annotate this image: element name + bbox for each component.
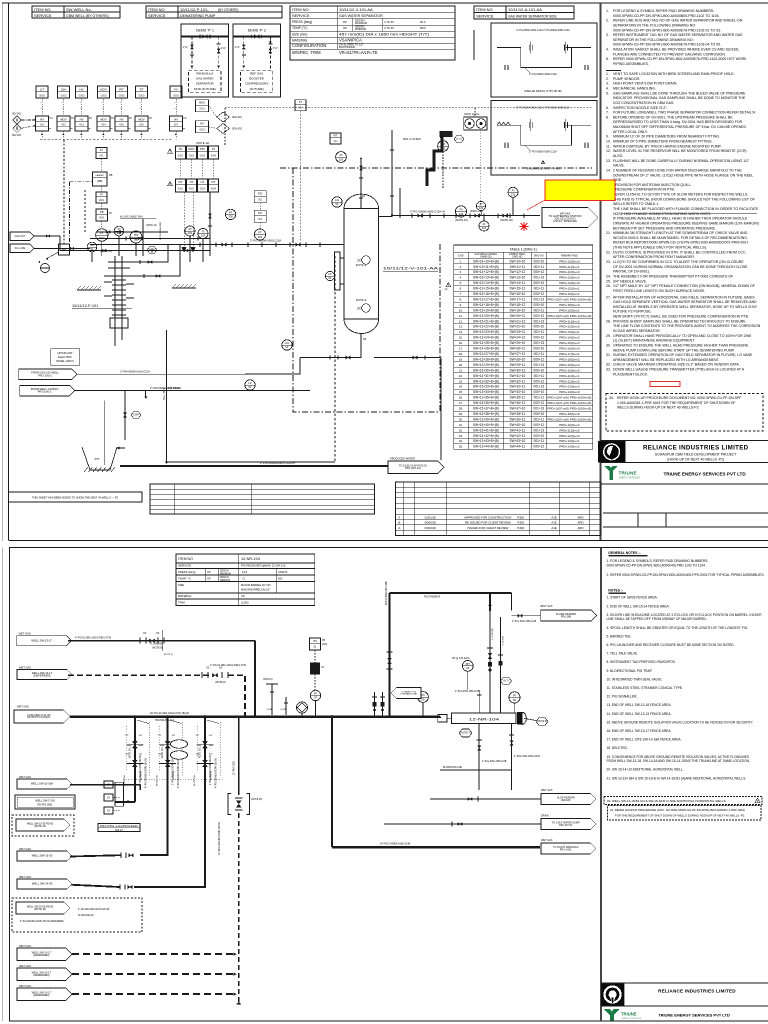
svg-text:0001: 0001	[178, 154, 184, 157]
svg-text:4.: 4.	[606, 87, 609, 91]
svg-text:TELL TALE: TELL TALE	[163, 387, 166, 400]
svg-text:BEFORE OPENING OF DV-0001, THE: BEFORE OPENING OF DV-0001, THE UPSTREAM …	[613, 115, 733, 119]
table: dewatering pump item block T2	[146, 6, 282, 18]
wellhead side stubs	[104, 281, 112, 283]
svg-text:APPROVED FOR CONSTRUCTION: APPROVED FOR CONSTRUCTION	[464, 515, 511, 519]
svg-text:SERVICE: SERVICE	[148, 13, 166, 18]
svg-text:SW+13+43+B+(B): SW+13+43+B+(B)	[473, 439, 499, 443]
svg-text:SERVICE: SERVICE	[476, 14, 494, 19]
svg-text:001+11: 001+11	[534, 308, 545, 312]
svg-text:TRIUNE: TRIUNE	[619, 471, 637, 476]
svg-text:LSH: LSH	[61, 87, 67, 91]
svg-text:000+12: 000+12	[533, 379, 544, 383]
svg-text:GAS WATER SEPARATOR: GAS WATER SEPARATOR	[339, 14, 383, 18]
vessel top nozzle	[360, 194, 362, 209]
instrument circle PI-230	[225, 209, 235, 219]
cluster double block valve	[204, 752, 206, 759]
cluster upper ticks	[134, 721, 136, 727]
svg-text:TRIUNE ENERGY SERVICES PVT LTD: TRIUNE ENERGY SERVICES PVT LTD	[663, 471, 746, 476]
flowline 1 riser to header	[254, 641, 256, 717]
svg-text:PRD+15(0)+x3: PRD+15(0)+x3	[559, 341, 580, 345]
svg-text:PIG RECEIVER (@MAX 12 DIA 9.5): PIG RECEIVER (@MAX 12 DIA 9.5)	[241, 564, 286, 568]
flexible hose zigzag	[497, 122, 510, 125]
svg-text:7. TELL TALE VALVE.: 7. TELL TALE VALVE.	[607, 652, 639, 656]
svg-text:C-07A: C-07A	[280, 708, 286, 711]
svg-text:VR=51/TR=A/LR=TE: VR=51/TR=A/LR=TE	[339, 50, 378, 55]
svg-text:000+10: 000+10	[533, 368, 544, 372]
svg-text:NOTE 10 L: NOTE 10 L	[162, 746, 164, 758]
svg-text:PRD+1(0)7+x(0) PRD+1(0)9+x(0): PRD+1(0)7+x(0) PRD+1(0)9+x(0)	[547, 297, 591, 301]
svg-text:XS: XS	[219, 667, 223, 670]
svg-text:06/06/20: 06/06/20	[425, 521, 437, 525]
svg-text:12-NR-104: 12-NR-104	[241, 557, 261, 561]
svg-text:4"-PG-0RA-B16-0CPN-1B-1W: 4"-PG-0RA-B16-0CPN-1B-1W	[78, 908, 110, 911]
svg-text:PRD+19(0)+x1: PRD+19(0)+x1	[559, 308, 580, 312]
svg-text:PI: PI	[480, 202, 483, 206]
svg-text:000+12: 000+12	[533, 445, 544, 449]
hand switch instrument box HS	[310, 638, 321, 650]
svg-text:SW+34+10: SW+34+10	[510, 390, 526, 394]
instrument square PT with dashed signal lines	[295, 100, 306, 111]
svg-text:IN GAS WIRED SEPARATOR.: IN GAS WIRED SEPARATOR.	[613, 329, 661, 333]
svg-text:9.: 9.	[460, 303, 463, 307]
svg-text:0002: 0002	[189, 187, 195, 190]
svg-text:FV: FV	[174, 87, 178, 91]
svg-text:COMPRESSORS: COMPRESSORS	[245, 82, 268, 86]
notes column divider sheet 1	[600, 3, 602, 540]
svg-text:PRJ-(167-01): PRJ-(167-01)	[405, 466, 421, 470]
valve stubs with actuators near x=378	[374, 692, 376, 717]
svg-text:W/SPEC. TRIM: W/SPEC. TRIM	[292, 50, 321, 55]
svg-text:MAJOR BARREL 20" OD: MAJOR BARREL 20" OD	[241, 583, 271, 587]
detail flange pairs	[528, 45, 530, 51]
flag: from CBM well flowline	[19, 369, 77, 380]
package internal dashed drops	[191, 37, 193, 71]
manifold cluster third drop	[134, 802, 205, 887]
svg-text:GAS SAMPLING SHALL BE DONE THR: GAS SAMPLING SHALL BE DONE THROUGH THE B…	[613, 91, 746, 95]
svg-text:SW+28+10: SW+28+10	[510, 357, 526, 361]
svg-text:ITEM NO: ITEM NO	[476, 7, 493, 12]
svg-text:HIGH POINT VENT/LOW POINT DRAI: HIGH POINT VENT/LOW POINT DRAIN.	[613, 82, 677, 86]
svg-text:11.: 11.	[606, 144, 611, 148]
svg-text:001+11: 001+11	[534, 352, 545, 356]
svg-text:3/4": 3/4"	[209, 735, 213, 737]
svg-text:DRAIN: DRAIN	[541, 815, 549, 818]
cluster double block valve	[134, 752, 136, 759]
svg-text:11. STAINLESS STEEL STRAINER C: 11. STAINLESS STEEL STRAINER CONICAL TYP…	[607, 686, 683, 690]
svg-text:PB: PB	[322, 640, 325, 642]
svg-text:WET GAS: WET GAS	[19, 847, 31, 851]
svg-text:20"-PG-01-0RA-16GO-CPN-1B-1W: 20"-PG-01-0RA-16GO-CPN-1B-1W	[150, 712, 190, 715]
svg-text:(NOTE 1): (NOTE 1)	[164, 654, 173, 656]
cluster double block valve	[167, 734, 169, 741]
svg-text:FLOWLINE: FLOWLINE	[150, 643, 163, 646]
table 1 row 2	[454, 268, 593, 270]
svg-text:23.: 23.	[606, 260, 611, 264]
svg-text:LINE SHALL BE TAPPED OFF FROM: LINE SHALL BE TAPPED OFF FROM MIDWAY OF …	[607, 617, 708, 621]
svg-text:001+13: 001+13	[533, 428, 544, 432]
svg-text:SW+13+28+B+(B): SW+13+28+B+(B)	[473, 357, 499, 361]
svg-text:2"-PG-0000A-0000-C12A: 2"-PG-0000A-0000-C12A	[250, 239, 281, 243]
instrument box MOV upper	[98, 86, 110, 98]
instrument box PIT upper	[116, 86, 128, 98]
svg-text:SW+40+10: SW+40+10	[510, 423, 526, 427]
produced water header	[120, 465, 388, 467]
svg-text:WCV/DV-0001/1 SHALL BE MAINTAI: WCV/DV-0001/1 SHALL BE MAINTAINED. FOR D…	[613, 236, 748, 240]
svg-text:003: 003	[79, 122, 84, 126]
svg-text:4"-PG-0RA-B16-0CPN-1B-1W (DEF: 4"-PG-0RA-B16-0CPN-1B-1W (DEFERRED)	[20, 920, 64, 923]
svg-text:PRD+14(0)+x2: PRD+14(0)+x2	[559, 336, 580, 340]
svg-text:SERVICE: SERVICE	[178, 564, 191, 568]
fence boundary line crossing flowline 1	[162, 630, 164, 651]
svg-text:REFER HOOK-UP PROCEDURE DOCUME: REFER HOOK-UP PROCEDURE DOCUMENT NO. 000…	[617, 396, 741, 400]
table 1 row 7	[454, 296, 593, 298]
svg-text:2"x1": 2"x1"	[273, 48, 278, 50]
svg-text:DEPRESSURIZED TO LESS THAN 4 b: DEPRESSURIZED TO LESS THAN 4 barg. DV-00…	[613, 120, 743, 124]
svg-text:~: ~	[102, 107, 104, 111]
svg-text:3/4" NEEDLE VALVE.: 3/4" NEEDLE VALVE.	[613, 279, 647, 283]
svg-text:28.: 28.	[459, 407, 463, 411]
table 1 row 12	[454, 323, 593, 325]
instrument box PIT lower	[115, 116, 128, 131]
table 1 row 3	[454, 274, 593, 276]
underline in notes RCA report	[622, 213, 757, 215]
control valve station on gas line	[392, 215, 540, 217]
svg-text:PU: PU	[89, 118, 92, 120]
svg-text:(DWG 10): (DWG 10)	[100, 249, 112, 253]
instrument circle MT on receiver line	[462, 661, 473, 672]
manifold branch cluster at x=167.7	[167, 717, 169, 803]
svg-text:TI: TI	[202, 230, 205, 234]
svg-text:SW+13+11+B+(B): SW+13+11+B+(B)	[473, 265, 499, 269]
svg-text:SW+13+29+B+(B): SW+13+29+B+(B)	[473, 363, 499, 367]
svg-text:RELIANCE INDUSTRIES LIMITED: RELIANCE INDUSTRIES LIMITED	[658, 988, 736, 993]
svg-text:NEW SKIRT/ (PVT/CT) SHALL BE U: NEW SKIRT/ (PVT/CT) SHALL BE USED FOR PR…	[613, 315, 749, 319]
instrument box FV upper	[170, 86, 182, 98]
svg-text:(N 17): (N 17)	[456, 139, 462, 141]
svg-text:10/11/12-V-101-AA: 10/11/12-V-101-AA	[383, 266, 439, 271]
table 1 row 30	[454, 421, 593, 423]
svg-text:10/11/12-V-101-AA: 10/11/12-V-101-AA	[339, 7, 373, 12]
red leader line to highlight	[527, 200, 545, 210]
svg-text:SDV-003: SDV-003	[12, 135, 22, 137]
svg-text:6. PIG LAUNCHER AND RECEIVER C: 6. PIG LAUNCHER AND RECEIVER CLOSURE MUS…	[607, 643, 735, 647]
svg-text:TEMP / °C: TEMP / °C	[178, 577, 191, 581]
svg-text:BOOT/DRAIN: BOOT/DRAIN	[339, 45, 355, 49]
receiver drain piping	[478, 724, 480, 790]
svg-text:000+12: 000+12	[533, 292, 544, 296]
svg-text:WELL SW-15-30A: WELL SW-15-30A	[31, 782, 53, 786]
svg-text:PRJ-1-001: PRJ-1-001	[560, 848, 572, 851]
tell tale vertical pipe	[166, 330, 168, 462]
svg-text:2. END OF WELL SW-15-14 FENCE: 2. END OF WELL SW-15-14 FENCE AREA.	[607, 604, 670, 608]
sheet 2 item table 12-NR-104	[176, 554, 315, 605]
svg-text:001+13: 001+13	[533, 407, 544, 411]
svg-text:(NOTE 13): (NOTE 13)	[146, 225, 157, 227]
svg-text:3.: 3.	[460, 270, 463, 274]
svg-text:0000: 0000	[60, 93, 67, 97]
svg-text:PRD+1(0)7+x(0) PRD+1(0)9+x(0): PRD+1(0)7+x(0) PRD+1(0)9+x(0)	[547, 417, 591, 421]
svg-text:000+12: 000+12	[533, 270, 544, 274]
svg-text:SW+15+41+B+(B): SW+15+41+B+(B)	[473, 428, 499, 432]
svg-text:0001: 0001	[99, 199, 105, 202]
vessel internal demister	[362, 256, 370, 264]
svg-text:PIT: PIT	[333, 134, 337, 138]
svg-text:LIT: LIT	[40, 87, 44, 91]
svg-text:HV: HV	[200, 122, 204, 126]
table 1 row 20	[454, 366, 593, 368]
svg-text:SW+15+19+B+(B): SW+15+19+B+(B)	[473, 308, 499, 312]
svg-text:2.: 2.	[606, 19, 609, 23]
main manifold header	[70, 715, 440, 718]
svg-text:XS: XS	[107, 798, 110, 800]
svg-text:4.: 4.	[460, 276, 463, 280]
instrument row B with warning triangle	[168, 181, 173, 185]
svg-text:ROUTINGMETA: ROUTINGMETA	[424, 596, 441, 599]
hatched sample box	[440, 132, 452, 137]
svg-text:ITEM NO: ITEM NO	[178, 557, 193, 561]
manifold cluster left drop	[115, 801, 135, 803]
svg-text:ALSO.: ALSO.	[613, 154, 623, 158]
svg-text:30.: 30.	[459, 417, 463, 421]
pit with ground hatch	[82, 447, 117, 470]
svg-text:(DEFERRED): (DEFERRED)	[33, 993, 49, 997]
svg-text:ELECTRIC: ELECTRIC	[58, 355, 72, 359]
svg-text:5. BARRED TEE.: 5. BARRED TEE.	[607, 634, 632, 638]
svg-text:SW+20+11: SW+20+11	[510, 314, 526, 318]
svg-text:(NOTE 10) L: (NOTE 10) L	[157, 773, 159, 786]
svg-text:DEMS 'P' 2: DEMS 'P' 2	[248, 29, 266, 33]
svg-text:1.: 1.	[606, 72, 609, 76]
Triune logo sheet 2	[604, 1009, 620, 1021]
svg-text:XS: XS	[321, 667, 324, 669]
svg-text:WELL SW-14-09: WELL SW-14-09	[32, 882, 53, 886]
svg-text:SW+13+15+B+(B): SW+13+15+B+(B)	[473, 287, 499, 291]
svg-text:MAXIMUM SHUT OFF DIFFERENTIAL: MAXIMUM SHUT OFF DIFFERENTIAL PRESSURE O…	[613, 125, 746, 129]
svg-text:ARD: ARD	[577, 521, 583, 525]
cluster double block valve	[204, 734, 206, 741]
svg-text:PRD+12(0)+x0: PRD+12(0)+x0	[559, 434, 580, 438]
svg-text:PRD+11(0)+x3: PRD+11(0)+x3	[559, 428, 579, 432]
svg-text:(SW-17): (SW-17)	[115, 830, 123, 832]
svg-text:SDV-002: SDV-002	[12, 114, 22, 116]
svg-text:REFER 0000-SPWN-CD-PP-DN-SPW1-: REFER 0000-SPWN-CD-PP-DN-SPW1-B00-A0000E…	[613, 57, 747, 61]
svg-text:SW+43+10: SW+43+10	[510, 439, 526, 443]
svg-text:PRD+19(0)+x3: PRD+19(0)+x3	[559, 363, 580, 367]
svg-text:OPERATE AT HIGHER OPERATING PR: OPERATE AT HIGHER OPERATING PRESSURE KEE…	[613, 221, 759, 225]
svg-text:PRD+13(0)+x1: PRD+13(0)+x1	[559, 439, 580, 443]
instrument box LIT upper	[36, 86, 48, 98]
svg-text:3/4": 3/4"	[139, 735, 143, 737]
instrument box HV lower	[75, 116, 88, 131]
water line instruments	[245, 380, 255, 390]
svg-text:REFER RCA REPORT/0000-SPWN-CD-: REFER RCA REPORT/0000-SPWN-CD-LYS-PN-SPW…	[613, 241, 748, 245]
svg-text:XS: XS	[107, 785, 110, 787]
svg-text:SW+12+12: SW+12+12	[510, 270, 526, 274]
signal line horizontal dashed	[225, 107, 592, 109]
svg-text:PRESSURE COMPENSATION IN PTB.: PRESSURE COMPENSATION IN PTB.	[613, 188, 675, 192]
table 1 row 24	[454, 388, 593, 390]
cabinet box	[93, 172, 108, 186]
dotted separator line under clusters	[123, 778, 223, 780]
table 1 row 33	[454, 437, 593, 439]
svg-text:SW+14+10+B+(B): SW+14+10+B+(B)	[473, 259, 499, 263]
boxed note 23 with warning triangle	[608, 806, 762, 821]
svg-text:~: ~	[40, 101, 42, 105]
svg-text:(NOTE 11) HyC: (NOTE 11) HyC	[464, 114, 480, 116]
svg-text:34.: 34.	[459, 439, 463, 443]
svg-text:IF PRESSURE AVAILABLE AT WELL: IF PRESSURE AVAILABLE AT WELL HEAD IS HI…	[613, 217, 748, 221]
svg-text:MATERIAL: MATERIAL	[292, 38, 308, 42]
svg-text:MINIMUM: MINIMUM	[220, 580, 230, 582]
cluster slanted leader	[137, 720, 149, 724]
svg-text:SW+36+12: SW+36+12	[510, 401, 526, 405]
flag: from well annulus	[20, 385, 75, 396]
svg-text:000+10: 000+10	[533, 325, 544, 329]
svg-text:AJE: AJE	[551, 526, 556, 530]
svg-text:SEPARATOR: SEPARATOR	[196, 82, 214, 86]
instrument circle PI-05 stem	[422, 702, 424, 716]
svg-text:000+10: 000+10	[533, 412, 544, 416]
svg-text:SW+32+11: SW+32+11	[510, 379, 526, 383]
small XS boxes column left	[104, 781, 113, 788]
flag: PIG receivable well	[15, 795, 75, 809]
svg-text:07: 07	[314, 696, 318, 700]
svg-text:SW+44+11: SW+44+11	[510, 445, 526, 449]
svg-text:DEWATERING PUMP: DEWATERING PUMP	[180, 14, 216, 18]
svg-text:27.: 27.	[459, 401, 463, 405]
svg-text:PRD+10(0)+x0: PRD+10(0)+x0	[559, 259, 580, 263]
svg-text:PI: PI	[189, 227, 192, 231]
arrow up from signal manifold	[63, 131, 65, 140]
svg-text:PRD+11(0)+x3: PRD+11(0)+x3	[559, 319, 579, 323]
svg-text:03/03/20: 03/03/20	[425, 526, 437, 530]
svg-text:000+10: 000+10	[533, 303, 544, 307]
svg-text:PRD+1(0)7+x(0) PRD+1(0)9+x(0): PRD+1(0)7+x(0) PRD+1(0)9+x(0)	[547, 314, 591, 318]
svg-text:SDV-002: SDV-002	[232, 128, 243, 131]
shutdown valve diamonds SDV	[217, 112, 230, 122]
notes separator rule	[606, 70, 621, 72]
svg-text:001+13: 001+13	[533, 297, 544, 301]
sheet 1 outer thin border	[1, 3, 3, 541]
svg-text:007: 007	[174, 122, 179, 126]
hexagon note near sample box	[454, 136, 464, 142]
svg-text:PRD+1(0)7+x(0) PRD+1(0)9+x(0): PRD+1(0)7+x(0) PRD+1(0)9+x(0)	[547, 407, 591, 411]
svg-text:01: 01	[328, 276, 332, 280]
svg-text:(1): (1)	[445, 289, 448, 291]
svg-text:0002: 0002	[189, 154, 195, 157]
cluster double block valve	[167, 752, 169, 759]
table 1 row 1	[454, 263, 593, 265]
instrument circle PI mid column	[96, 229, 108, 241]
svg-text:7.: 7.	[606, 111, 609, 115]
arrow up from signal manifold	[141, 131, 143, 140]
instrument circle with diamond	[296, 702, 307, 713]
svg-text:2 NUMBER OF FEED/BIO HOSE FOR: 2 NUMBER OF FEED/BIO HOSE FOR WATER DISC…	[613, 168, 742, 172]
svg-text:XS: XS	[206, 667, 210, 670]
table 1 row 13	[454, 328, 593, 330]
svg-text:REMARK/ P&ID: REMARK/ P&ID	[561, 255, 578, 258]
svg-text:1.: 1.	[606, 9, 609, 13]
svg-text:(NOTE 15): (NOTE 15)	[251, 799, 262, 801]
svg-text:000+12: 000+12	[533, 336, 544, 340]
svg-text:C-03A: C-03A	[266, 708, 272, 711]
water outlet from vessel bottom	[300, 348, 361, 358]
well hookup cluster rows	[139, 785, 141, 790]
svg-text:PRD+12(0)+x0: PRD+12(0)+x0	[559, 325, 580, 329]
svg-text:DV(TD CONTROL IS PROVIDED IN: DV(TD CONTROL IS PROVIDED IN STN. IT SHA…	[613, 250, 746, 254]
svg-text:(DEFERRED): (DEFERRED)	[33, 953, 49, 957]
svg-text:THE ASSEMBLY FOR PRESSURE TRAN: THE ASSEMBLY FOR PRESSURE TRANSMITTER PT…	[613, 274, 733, 278]
svg-text:(NOTE 3): (NOTE 3)	[211, 771, 213, 780]
skid boundary dash-dot line	[280, 167, 592, 169]
svg-text:SW+27+12: SW+27+12	[510, 352, 526, 356]
svg-text:SW+24+12: SW+24+12	[510, 336, 526, 340]
svg-text:1/2" NPT MALE BY 1/2" NPT FEMA: 1/2" NPT MALE BY 1/2" NPT FEMALE CONNECT…	[613, 284, 755, 288]
svg-text:26.: 26.	[459, 396, 463, 400]
instrument tap riser on gas line	[391, 130, 393, 216]
svg-text:NOTE 10 L: NOTE 10 L	[129, 746, 131, 758]
svg-text:(NOTE 15): (NOTE 15)	[455, 218, 468, 222]
svg-text:PRESS (barg): PRESS (barg)	[178, 570, 196, 574]
svg-text:LG: LG	[335, 198, 340, 202]
svg-text:05: 05	[421, 697, 425, 701]
svg-text:PRD+1(0)7+x(0) PRD+1(0)9+x(0): PRD+1(0)7+x(0) PRD+1(0)9+x(0)	[547, 396, 591, 400]
note hexagon near wellhead	[147, 247, 157, 253]
svg-text:PRJ-1(A)-1: PRJ-1(A)-1	[38, 373, 52, 377]
svg-text:MOV: MOV	[100, 117, 106, 121]
package header pipe	[181, 36, 229, 38]
svg-text:THE LINE SHALL BE PLUGGED WITH: THE LINE SHALL BE PLUGGED WITH FLANGE CO…	[613, 207, 759, 211]
svg-text:18.: 18.	[459, 352, 463, 356]
svg-text:10. INTEGRATED TWIN SEAL VALVE: 10. INTEGRATED TWIN SEAL VALVE.	[607, 677, 663, 681]
svg-text:SW+14+31+B+(B): SW+14+31+B+(B)	[473, 374, 499, 378]
svg-text:4. SPOOL LENGTH SHALL BE GREAT: 4. SPOOL LENGTH SHALL BE GREATER OR EQUA…	[607, 626, 749, 630]
drain pit loop piping	[103, 400, 105, 465]
svg-text:22.: 22.	[606, 250, 611, 254]
svg-text:15.: 15.	[459, 336, 463, 340]
svg-text:PUMP VENDOR.: PUMP VENDOR.	[613, 77, 640, 81]
svg-text:PU: PU	[129, 118, 132, 120]
svg-text:001+11: 001+11	[534, 287, 545, 291]
svg-text:OPERATOR SHALL HAVE PERIODICAL: OPERATOR SHALL HAVE PERIODICALLY TO OPEN…	[613, 334, 752, 338]
svg-text:22. WELL SW-13-18-B1 IA4 & SW-: 22. WELL SW-13-18-B1 IA4 & SW-15-18-B IV…	[607, 799, 727, 803]
left riser valves	[387, 651, 393, 653]
svg-text:000+10: 000+10	[533, 434, 544, 438]
svg-text:ITEM NO: ITEM NO	[34, 7, 51, 12]
table 1 row 14	[454, 334, 593, 336]
svg-text:LIT: LIT	[201, 180, 205, 184]
arrow up from signal manifold	[175, 131, 177, 140]
svg-text:01: 01	[285, 345, 289, 349]
svg-text:13. END OF WELL SW-13-18 FENCE: 13. END OF WELL SW-13-18 FENCE AREA.	[607, 703, 672, 707]
svg-text:SW+13+20+B+(B): SW+13+20+B+(B)	[473, 314, 499, 318]
svg-text:23.: 23.	[459, 379, 463, 383]
svg-text:12-NR-104: 12-NR-104	[469, 717, 500, 722]
svg-text:0000: 0000	[118, 93, 125, 97]
svg-text:PRD+13(0)+x3: PRD+13(0)+x3	[559, 276, 580, 280]
flowline pipe from well 1	[68, 640, 255, 642]
svg-text:DURING EXTENDED OPERATION OF G: DURING EXTENDED OPERATION OF GAS FIELD S…	[613, 353, 753, 357]
svg-text:CHECK VALVE MAXIMUM OPERATING: CHECK VALVE MAXIMUM OPERATING SIZE IS 2"…	[613, 363, 740, 367]
svg-text:WELLS REFER TO TABLE-1.: WELLS REFER TO TABLE-1.	[613, 202, 659, 206]
svg-text:FT: FT	[258, 231, 262, 235]
svg-text:TABLE 1 (DWG-1): TABLE 1 (DWG-1)	[510, 247, 537, 251]
svg-text:000+12: 000+12	[533, 314, 544, 318]
svg-text:P&ID: P&ID	[517, 515, 524, 519]
svg-text:2"-G (NOTE): 2"-G (NOTE)	[492, 628, 494, 640]
svg-text:25.: 25.	[606, 279, 611, 283]
